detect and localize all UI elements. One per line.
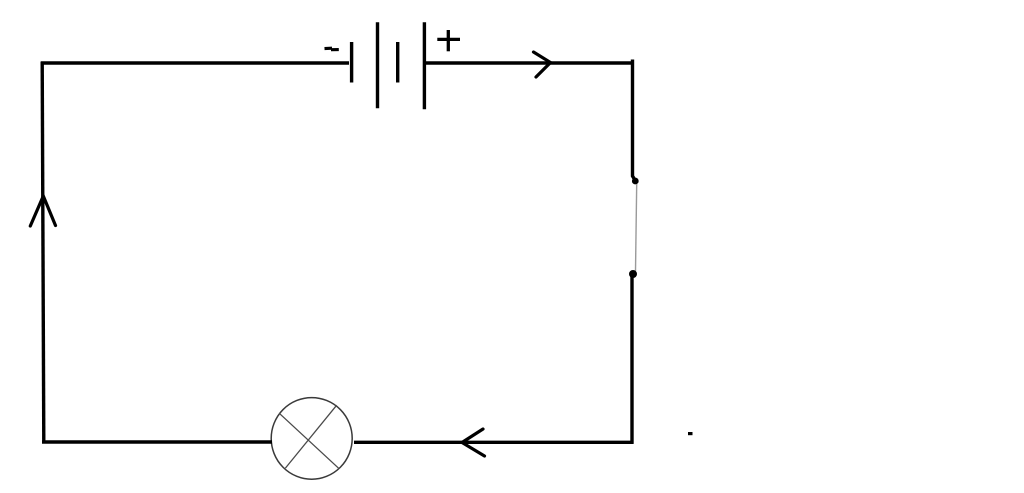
- wire: left segment from bottom-left corner up to top-left corner: [42, 62, 44, 444]
- current arrow (top, pointing right): [534, 52, 551, 77]
- wire: right segment from top-right corner down to switch: [633, 60, 636, 182]
- wire: right segment from switch down to bottom-right corner: [630, 276, 633, 444]
- wire: bottom segment from bottom-right corner to lamp: [354, 441, 634, 444]
- switch S1 upper contact dot: [632, 178, 639, 185]
- label: plus polarity mark: [437, 30, 460, 51]
- wire: bottom segment from lamp to bottom-left corner: [42, 440, 272, 443]
- wire: top segment from top-left corner to battery negative terminal: [41, 61, 349, 64]
- current arrow (left, pointing up): [30, 196, 55, 226]
- wire: top segment from battery positive terminal to top-right corner: [426, 61, 634, 64]
- current arrow (bottom, pointing left): [462, 429, 485, 456]
- lamp L1 (circle with cross): [271, 398, 352, 480]
- battery BT1: [352, 22, 425, 109]
- label: minus polarity mark: [325, 48, 339, 50]
- stray dot mark: [688, 432, 693, 435]
- switch S1 open contact (thin line): [636, 184, 637, 271]
- switch S1 lower contact dot: [629, 270, 637, 278]
